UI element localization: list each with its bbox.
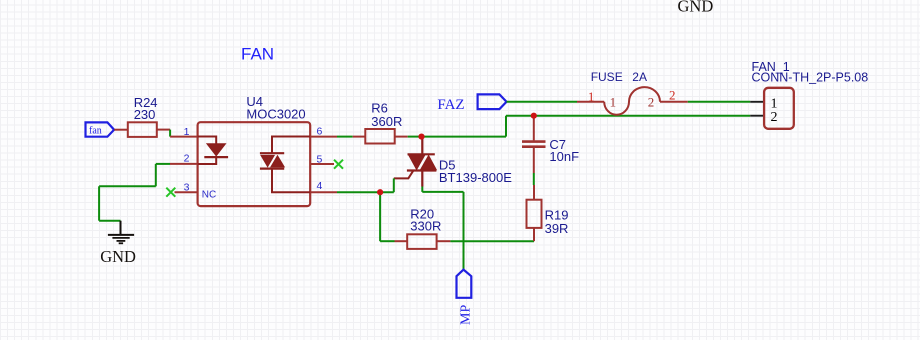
resistor R6 [353,129,408,144]
net label MP [457,270,474,325]
wire to R20 [380,240,394,242]
svg-text:MP: MP [458,305,473,325]
optocoupler U4 [198,122,311,206]
svg-text:1: 1 [184,126,190,138]
no-connect X pin 5 [334,160,343,169]
U4 pin 2 stub [170,163,198,165]
wire D5 to MP column [422,191,463,193]
wire node to right [422,136,507,138]
wire FAZ to fuse [507,101,578,103]
wire pin2 down [155,164,157,186]
wire green mid segment [533,173,535,185]
wire gate node down [379,192,381,241]
connector pin 2 stub [750,115,765,117]
svg-text:FAZ: FAZ [437,97,464,113]
wire R19 bottom stub [533,228,535,241]
U4 pin 5 stub (NC) [310,163,334,165]
wire D5 MT2 down [421,187,423,192]
wire jog to U4 pin 1 [170,136,198,138]
svg-text:2: 2 [184,153,190,165]
svg-text:360R: 360R [371,114,402,129]
U4 pin 6 stub [310,136,337,138]
wire down to gnd row [98,186,100,220]
net label fan [86,122,115,136]
wire to ground stub [99,220,120,222]
wire fan to R24 [114,129,128,131]
junction node C7 tap [531,113,537,119]
wire to left [99,185,156,187]
svg-text:GND: GND [100,247,136,266]
svg-text:2: 2 [648,94,655,109]
U4 pin 3 stub (NC) [175,191,198,193]
net label FAZ [437,94,506,113]
resistor R19 [527,191,542,228]
svg-text:1: 1 [588,89,595,104]
svg-text:2: 2 [669,88,676,103]
U4 internal LED [198,137,229,165]
svg-text:10nF: 10nF [549,149,579,164]
svg-text:CONN-TH_2P-P5.08: CONN-TH_2P-P5.08 [752,71,869,85]
svg-text:2A: 2A [632,70,647,84]
svg-text:BT139-800E: BT139-800E [439,170,512,185]
junction node R6/D5 [418,134,424,140]
triac D5 [394,137,437,193]
wire fuse to connector pin 1 [688,101,750,103]
wire up at x506 [505,116,507,137]
resistor R24 [128,122,157,137]
no-connect X pin 3 [166,188,175,197]
svg-text:330R: 330R [410,219,441,234]
wire jog vertical [169,130,171,137]
svg-text:NC: NC [202,190,216,201]
resistor R20 [395,234,451,249]
wire pin6 to R6 [337,136,353,138]
capacitor C7 [522,116,546,147]
svg-text:fan: fan [89,125,102,136]
svg-text:MOC3020: MOC3020 [246,106,305,121]
svg-text:1: 1 [610,94,617,109]
ground symbol [108,221,134,244]
wire to connector pin 2 [506,115,750,117]
wire pin2 horizontal [156,163,170,165]
U4 internal photo-triac [260,137,310,193]
wire R20 to R19 bottom [450,240,534,242]
junction node gate [377,189,383,195]
svg-text:2: 2 [771,110,778,125]
svg-text:FUSE: FUSE [591,70,623,84]
svg-text:FAN: FAN [241,45,274,64]
U4 pin 4 stub [310,191,337,193]
wire pin4 to gate node [337,191,394,193]
svg-text:GND: GND [678,0,714,15]
wire R24 to jog [157,129,170,131]
svg-text:230: 230 [134,107,156,122]
wire to R19 top [533,185,535,191]
wire C7 to R19 upper [533,147,535,173]
fuse FUSE 2A [577,87,688,115]
wire MP column down [463,192,465,269]
svg-text:4: 4 [317,180,323,192]
svg-text:39R: 39R [545,221,569,236]
wire R6 to node [408,136,422,138]
connector FAN_1 [764,88,794,129]
connector pin 1 stub [750,101,765,103]
